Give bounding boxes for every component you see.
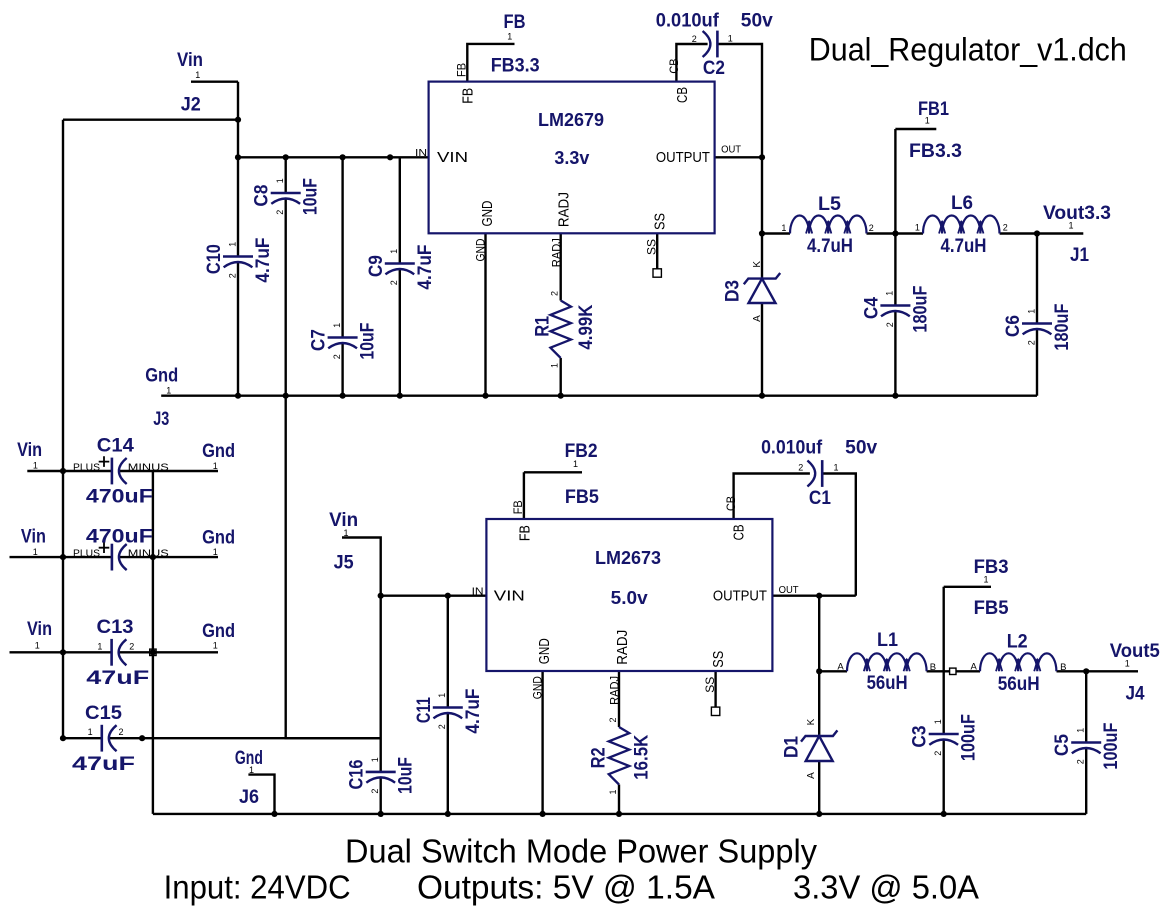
junction at 943.7,813.9 — [941, 811, 947, 817]
svg-text:Outputs: 5V @ 1.5A: Outputs: 5V @ 1.5A — [417, 869, 715, 906]
svg-text:LM2673: LM2673 — [595, 547, 661, 568]
svg-text:2: 2 — [332, 354, 342, 359]
inductor L5 4.7uH — [790, 216, 867, 234]
svg-text:MINUS: MINUS — [128, 463, 169, 474]
svg-text:180uF: 180uF — [910, 286, 931, 333]
svg-text:0.010uf: 0.010uf — [656, 10, 720, 31]
svg-text:Vout3.3: Vout3.3 — [1043, 203, 1111, 224]
svg-text:VIN: VIN — [437, 149, 468, 166]
wire VIN row U2 — [381, 595, 487, 597]
svg-text:1: 1 — [437, 693, 447, 698]
svg-text:J2: J2 — [181, 94, 201, 115]
wire FB2 stub — [524, 472, 582, 519]
svg-text:CB: CB — [674, 87, 691, 103]
svg-text:RADJ: RADJ — [556, 192, 573, 227]
wire C9 column — [399, 157, 401, 395]
svg-text:3.3v: 3.3v — [554, 147, 590, 168]
svg-text:1: 1 — [195, 70, 200, 80]
svg-text:J5: J5 — [334, 552, 354, 573]
svg-text:Dual Switch Mode Power Supply: Dual Switch Mode Power Supply — [345, 833, 817, 870]
inductor L6 4.7uH — [923, 216, 1000, 234]
svg-text:50v: 50v — [741, 10, 773, 31]
junction at 819.2,595.7 — [816, 593, 822, 599]
svg-text:C3: C3 — [910, 726, 931, 748]
op-amp U2 LM2673 box — [486, 519, 772, 671]
svg-text:2: 2 — [129, 641, 134, 651]
wire Gnd bus top — [161, 395, 1037, 397]
svg-text:FB: FB — [455, 63, 469, 77]
svg-text:1: 1 — [88, 727, 93, 737]
svg-text:4.7uH: 4.7uH — [807, 236, 853, 257]
junction at 542.6,813.9 — [540, 811, 546, 817]
junction at 895.4,233.5 — [892, 230, 898, 236]
svg-text:2: 2 — [885, 322, 895, 327]
svg-text:FB2: FB2 — [565, 441, 598, 462]
svg-text:Gnd: Gnd — [202, 441, 235, 462]
svg-text:10uF: 10uF — [301, 178, 322, 215]
svg-text:FB: FB — [511, 500, 525, 514]
svg-text:SS: SS — [651, 213, 668, 230]
wire C16 column — [380, 596, 382, 814]
svg-text:2: 2 — [437, 724, 447, 729]
svg-text:C5: C5 — [1052, 734, 1073, 756]
svg-text:Gnd: Gnd — [145, 366, 178, 387]
svg-text:4.7uF: 4.7uF — [463, 689, 484, 734]
junction at 63,471 — [60, 468, 66, 474]
wire FB1 stub — [895, 129, 936, 234]
svg-text:L2: L2 — [1007, 632, 1028, 653]
wire CB to C1 left — [734, 474, 810, 520]
svg-text:47uF: 47uF — [72, 754, 135, 775]
diode D1 zener — [801, 730, 837, 741]
svg-text:A: A — [971, 661, 978, 672]
capacitor C13 47uF — [110, 639, 113, 666]
capacitor C4 — [880, 304, 910, 307]
svg-text:Vin: Vin — [21, 526, 46, 547]
svg-text:C13: C13 — [97, 617, 134, 638]
junction at 1086.2,671.3 — [1083, 668, 1089, 674]
junction at 1037,233.5 — [1034, 230, 1040, 236]
junction at 895.4,395.7 — [892, 393, 898, 399]
svg-text:1: 1 — [33, 547, 38, 557]
wire C4 column — [894, 234, 896, 396]
svg-text:5.0v: 5.0v — [611, 587, 649, 608]
svg-text:50v: 50v — [845, 438, 877, 459]
svg-text:RADJ: RADJ — [549, 238, 563, 267]
svg-text:FB3.3: FB3.3 — [491, 56, 540, 77]
capacitor C15 47uF — [101, 725, 104, 752]
svg-text:2: 2 — [550, 291, 560, 296]
wire C12 row — [10, 556, 219, 558]
svg-text:470uF: 470uF — [86, 487, 153, 508]
svg-text:GND: GND — [536, 638, 553, 664]
svg-text:K: K — [752, 261, 763, 268]
capacitor C7 — [328, 336, 358, 339]
capacitor C10 — [223, 255, 253, 258]
svg-text:GND: GND — [473, 238, 487, 261]
svg-text:FB5: FB5 — [974, 598, 1009, 619]
svg-text:C4: C4 — [861, 297, 882, 319]
junction at 447.8,595.7 — [445, 593, 451, 599]
wire C10 column — [237, 82, 239, 396]
svg-text:470uF: 470uF — [86, 527, 153, 548]
svg-text:FB3: FB3 — [974, 557, 1009, 578]
wire C2 right corner down — [717, 44, 762, 157]
svg-text:RADJ: RADJ — [614, 630, 631, 665]
wire RADJ pin lead U1 — [560, 233, 562, 395]
svg-text:MINUS: MINUS — [128, 549, 169, 560]
junction at 238,119.7 — [235, 117, 241, 123]
svg-text:1: 1 — [983, 574, 988, 584]
svg-text:PLUS: PLUS — [73, 463, 100, 474]
svg-text:C1: C1 — [809, 488, 831, 509]
wire C3 column — [943, 671, 945, 814]
wire output vertical through D3 — [761, 157, 763, 395]
svg-text:L1: L1 — [877, 630, 898, 651]
junction at 380.7,595.7 — [378, 593, 384, 599]
junction at 560.7,395.7 — [558, 393, 564, 399]
op-amp U1 LM2679 box — [429, 82, 715, 234]
svg-text:1: 1 — [1026, 309, 1036, 314]
resistor R2 16.5K — [609, 727, 630, 785]
svg-text:2: 2 — [608, 717, 618, 722]
svg-text:FB: FB — [504, 12, 526, 33]
svg-text:180uF: 180uF — [1052, 304, 1073, 351]
svg-text:OUT: OUT — [779, 585, 799, 596]
capacitor C14 470uF — [111, 458, 114, 485]
wire SS pin lead U2 — [714, 671, 716, 708]
svg-text:C16: C16 — [347, 760, 368, 790]
svg-text:1: 1 — [573, 459, 578, 469]
svg-text:1: 1 — [35, 641, 40, 651]
svg-text:2: 2 — [1003, 222, 1008, 232]
svg-text:RADJ: RADJ — [608, 676, 622, 705]
svg-text:1: 1 — [1076, 728, 1086, 733]
svg-text:C11: C11 — [414, 697, 435, 723]
capacitor C16 — [366, 771, 396, 774]
svg-text:1: 1 — [885, 291, 895, 296]
svg-text:2: 2 — [227, 273, 237, 278]
svg-text:B: B — [930, 662, 936, 673]
svg-text:2: 2 — [798, 462, 803, 472]
wire GND pin lead U1 — [484, 233, 486, 395]
junction at 63,557.1 — [60, 554, 66, 560]
wire Gnd bus bottom — [153, 813, 1086, 815]
svg-text:R1: R1 — [533, 315, 554, 336]
capacitor C8 — [271, 192, 301, 195]
svg-text:1: 1 — [925, 115, 930, 125]
svg-text:1: 1 — [728, 34, 733, 44]
svg-text:C15: C15 — [85, 703, 122, 724]
svg-text:4.7uF: 4.7uF — [253, 238, 274, 283]
svg-text:1: 1 — [97, 641, 102, 651]
wire C14 row — [27, 470, 218, 472]
svg-text:Gnd: Gnd — [202, 621, 235, 642]
junction at 285.7,395.7 — [283, 393, 289, 399]
svg-text:1: 1 — [166, 385, 171, 395]
wire FB3 stub — [944, 587, 991, 672]
wire FB net stub top — [467, 44, 514, 82]
svg-text:J1: J1 — [1070, 245, 1089, 266]
svg-text:2: 2 — [692, 34, 697, 44]
svg-text:100uF: 100uF — [959, 714, 980, 761]
svg-text:Input: 24VDC: Input: 24VDC — [164, 869, 351, 906]
svg-text:47uF: 47uF — [86, 668, 149, 689]
inductor L2 56uH — [980, 653, 1056, 671]
svg-text:C2: C2 — [703, 58, 725, 79]
svg-text:1: 1 — [1068, 220, 1073, 230]
junction at 390.1,157.3 — [387, 154, 393, 160]
capacitor C9 — [385, 262, 415, 265]
capacitor C1 0.010uf — [821, 460, 824, 487]
svg-text:1: 1 — [343, 528, 348, 538]
junction at 63,652.3 — [60, 649, 66, 655]
svg-text:C8: C8 — [252, 185, 273, 207]
svg-text:2: 2 — [370, 789, 380, 794]
wire C8 column down to lower gnd link — [286, 157, 381, 738]
svg-text:CB: CB — [724, 496, 738, 511]
svg-text:GND: GND — [530, 676, 544, 699]
junction at 399.8,395.7 — [397, 393, 403, 399]
svg-text:A: A — [837, 661, 844, 672]
junction at 152.9,557.1 — [150, 554, 156, 560]
svg-text:4.7uH: 4.7uH — [941, 236, 987, 257]
svg-text:Vin: Vin — [177, 50, 203, 71]
wire CB to C2 left — [676, 44, 707, 82]
svg-text:D1: D1 — [781, 736, 802, 758]
svg-text:L5: L5 — [818, 194, 841, 215]
svg-text:C7: C7 — [309, 329, 330, 351]
svg-text:C10: C10 — [204, 244, 225, 274]
wire SS pin lead U1 — [656, 233, 658, 269]
svg-text:A: A — [752, 315, 763, 322]
junction at 619,813.9 — [616, 811, 622, 817]
capacitor C3 — [929, 733, 959, 736]
junction square L1-L2 row — [950, 668, 956, 674]
svg-text:FB: FB — [516, 525, 533, 541]
svg-text:K: K — [806, 718, 817, 725]
wire C6 column — [1036, 234, 1038, 396]
wire Vin J5 stub — [342, 538, 381, 596]
svg-text:SS: SS — [710, 651, 727, 668]
capacitor C5 — [1071, 741, 1101, 744]
svg-text:R2: R2 — [589, 747, 610, 768]
svg-text:IN: IN — [472, 586, 484, 597]
svg-text:2: 2 — [933, 751, 943, 756]
svg-text:VIN: VIN — [494, 588, 525, 605]
svg-text:J3: J3 — [153, 409, 169, 430]
wire minus vertical rail — [152, 471, 154, 814]
wire L5/L6 row — [762, 232, 1083, 234]
wire C15 row — [63, 737, 381, 739]
junction at 762,395.7 — [759, 393, 765, 399]
wire left vertical rail — [62, 120, 64, 739]
svg-text:IN: IN — [415, 148, 427, 159]
svg-text:16.5K: 16.5K — [632, 734, 653, 779]
junction at 819.2,813.9 — [816, 811, 822, 817]
svg-text:2: 2 — [118, 727, 123, 737]
svg-text:1: 1 — [213, 461, 218, 471]
junction at 238,157.3 — [235, 154, 241, 160]
svg-text:J4: J4 — [1126, 684, 1145, 705]
svg-text:2: 2 — [1026, 340, 1036, 345]
junction at 447.8,813.9 — [445, 811, 451, 817]
junction at 274.5,813.9 — [271, 811, 277, 817]
svg-text:C14: C14 — [97, 435, 134, 456]
wire OUTPUT lead top — [715, 156, 762, 158]
svg-text:2: 2 — [275, 210, 285, 215]
capacitor C6 — [1022, 322, 1052, 325]
svg-text:1: 1 — [370, 757, 380, 762]
svg-text:GND: GND — [479, 200, 496, 226]
svg-text:J6: J6 — [239, 787, 259, 808]
junction at 142.1,738.2 — [139, 735, 145, 741]
capacitor C12 470uF — [111, 544, 114, 571]
diode D3 zener — [744, 273, 780, 284]
svg-text:Gnd: Gnd — [202, 528, 235, 549]
svg-text:PLUS: PLUS — [73, 549, 100, 560]
svg-text:100uF: 100uF — [1101, 723, 1122, 770]
junction at 63,738.2 — [60, 735, 66, 741]
svg-text:Vin: Vin — [17, 440, 42, 461]
svg-text:1: 1 — [275, 178, 285, 183]
svg-text:1: 1 — [332, 323, 342, 328]
svg-text:3.3V @ 5.0A: 3.3V @ 5.0A — [793, 869, 979, 906]
svg-text:56uH: 56uH — [998, 674, 1040, 695]
resistor R1 4.99K — [550, 301, 571, 359]
svg-text:1: 1 — [1125, 658, 1130, 668]
U2 SS no-connect square — [711, 707, 719, 715]
svg-text:1: 1 — [915, 222, 920, 232]
svg-text:A: A — [806, 772, 817, 779]
junction at 819.2,671.3 — [816, 668, 822, 674]
svg-text:OUTPUT: OUTPUT — [713, 588, 767, 605]
svg-text:1: 1 — [781, 223, 786, 233]
svg-text:4.99K: 4.99K — [576, 304, 597, 349]
svg-text:C9: C9 — [366, 255, 387, 277]
svg-text:1: 1 — [507, 32, 512, 42]
junction at 342.6,395.7 — [340, 393, 346, 399]
junction at 762,157.3 — [759, 154, 765, 160]
inductor L1 56uH — [847, 653, 927, 671]
junction at 380.7,813.9 — [378, 811, 384, 817]
svg-text:4.7uF: 4.7uF — [415, 245, 436, 290]
svg-text:Vin: Vin — [27, 619, 52, 640]
svg-text:D3: D3 — [722, 280, 743, 302]
svg-text:SS: SS — [703, 677, 717, 693]
svg-text:SS: SS — [645, 239, 659, 255]
wire OUTPUT lead bottom — [772, 595, 855, 597]
svg-text:1: 1 — [833, 462, 838, 472]
junction at 238,395.7 — [235, 393, 241, 399]
svg-text:2: 2 — [389, 280, 399, 285]
wire Vin bus top — [238, 156, 430, 158]
U1 SS no-connect square — [653, 269, 661, 277]
svg-text:C6: C6 — [1003, 315, 1024, 337]
svg-text:FB5: FB5 — [565, 487, 599, 508]
svg-text:10uF: 10uF — [358, 323, 379, 360]
junction at 762,233.5 — [759, 230, 765, 236]
capacitor C2 0.010uf — [716, 31, 719, 58]
svg-text:1: 1 — [227, 242, 237, 247]
svg-text:1: 1 — [550, 363, 560, 368]
svg-text:0.010uf: 0.010uf — [761, 438, 823, 459]
wire C1 right corner down — [822, 474, 856, 596]
wire RADJ pin lead U2 — [618, 671, 620, 814]
wire C13 row — [10, 651, 219, 653]
svg-text:Dual_Regulator_v1.dch: Dual_Regulator_v1.dch — [809, 32, 1127, 68]
capacitor C11 — [433, 706, 463, 709]
junction square C13 row — [150, 649, 156, 655]
svg-text:1: 1 — [389, 249, 399, 254]
junction at 285.7,157.3 — [283, 154, 289, 160]
svg-text:2: 2 — [1076, 759, 1086, 764]
svg-text:1: 1 — [33, 461, 38, 471]
svg-text:Vout5: Vout5 — [1110, 641, 1160, 662]
wire L1/L2 row — [819, 670, 1138, 672]
svg-text:2: 2 — [869, 223, 874, 233]
wire C5 column — [1085, 671, 1087, 814]
svg-text:10uF: 10uF — [396, 757, 417, 794]
svg-text:1: 1 — [213, 641, 218, 651]
wire C7 column — [341, 157, 343, 395]
wire D1 column — [818, 596, 820, 814]
svg-text:CB: CB — [731, 524, 748, 540]
svg-text:FB: FB — [460, 88, 477, 104]
wire GND pin lead U2 — [541, 671, 543, 814]
wire J2 row to left rail — [63, 118, 238, 120]
junction at 342.6,157.3 — [340, 154, 346, 160]
svg-text:FB3.3: FB3.3 — [909, 141, 962, 162]
junction at 485.5,395.7 — [482, 393, 488, 399]
svg-text:OUTPUT: OUTPUT — [656, 149, 710, 166]
svg-text:1: 1 — [933, 719, 943, 724]
svg-text:LM2679: LM2679 — [538, 109, 604, 130]
svg-text:L6: L6 — [951, 193, 973, 214]
svg-text:OUT: OUT — [721, 144, 741, 155]
svg-text:1: 1 — [608, 789, 618, 794]
svg-text:56uH: 56uH — [867, 673, 908, 694]
svg-text:FB1: FB1 — [918, 99, 949, 120]
svg-text:1: 1 — [213, 547, 218, 557]
wire C11 column — [447, 596, 449, 814]
junction at 152.9,652.3 — [150, 649, 156, 655]
svg-text:CB: CB — [667, 59, 681, 74]
wire Gnd J6 stub — [248, 775, 274, 814]
wire Vin J2 stub — [191, 80, 238, 82]
svg-text:1: 1 — [249, 765, 254, 775]
svg-text:B: B — [1060, 662, 1066, 673]
